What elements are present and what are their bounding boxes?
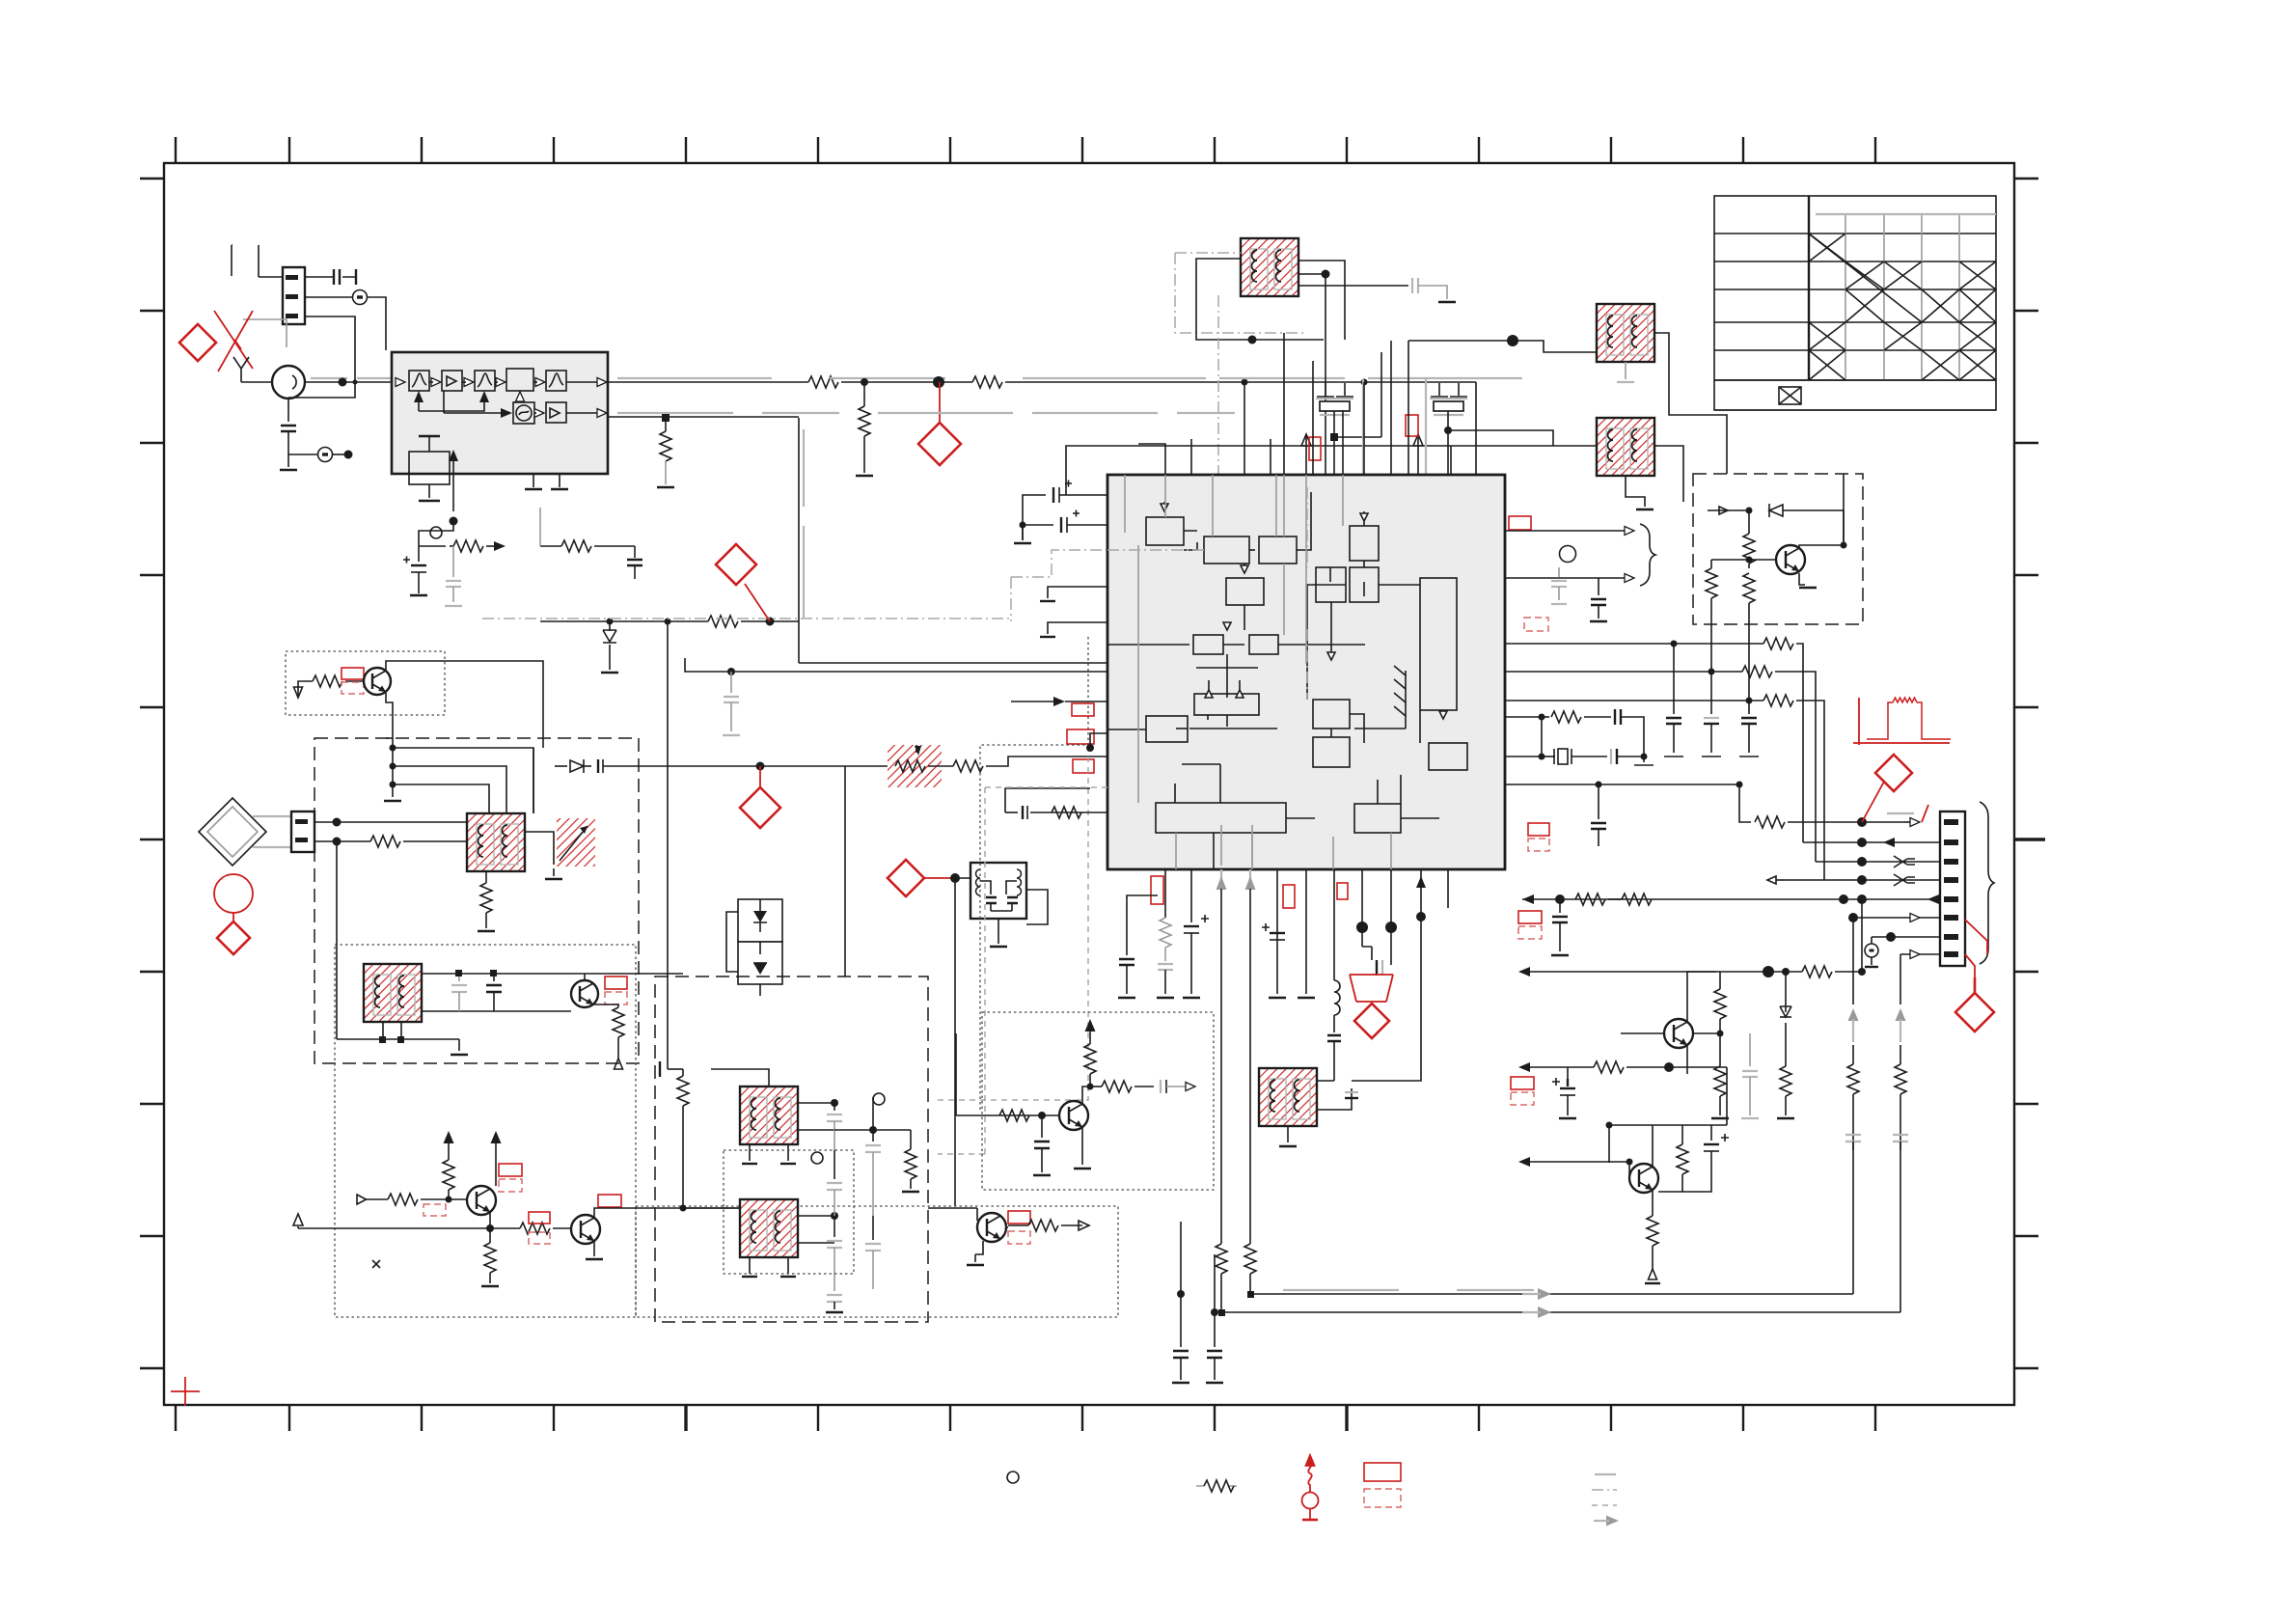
red label small boxes: [1309, 437, 1321, 460]
transformer T4: [467, 813, 525, 871]
resistor rows to connector: [1505, 643, 1763, 645]
pin3 wire: [1816, 861, 1940, 863]
red pin-label boxes: [1151, 876, 1163, 904]
wire mesh above IC: vertical drops from y=396 line and caps: [1138, 439, 1191, 475]
pin6 wire: [1853, 917, 1940, 919]
dashed group box B: [314, 738, 639, 1063]
transistor Q10: [1776, 545, 1805, 574]
Q1 collector resistor down: [489, 1228, 491, 1243]
pin drops with caps/resistors to ground: [1127, 895, 1158, 908]
part-number label box (red): [1008, 1211, 1030, 1224]
dashed gray long line into IC: [985, 787, 1107, 1154]
thick buses: [1189, 728, 1277, 729]
left zener + gnd: [609, 621, 611, 631]
red diamond upper w/ line to pin1 junction: [1875, 755, 1912, 791]
Q11: [1664, 1019, 1693, 1048]
resistor network right of Q11: [1719, 972, 1721, 989]
filter block 1: [409, 371, 429, 391]
transformer T3 (hatched): [1597, 418, 1654, 476]
border frame: [164, 163, 2014, 1405]
junction dots under IC right: [1420, 869, 1422, 917]
resistor: [1739, 784, 1751, 822]
part-number label box (red): [1528, 823, 1549, 836]
gray dotted shield boundary: [980, 637, 1088, 1112]
alt part-number label box (red dashed): [1528, 839, 1549, 851]
gray internal bus lines: [1125, 475, 1391, 869]
wire: [231, 244, 232, 246]
legend resistor: [1196, 1480, 1237, 1492]
gray dash-dot bus: [482, 550, 1107, 621]
small open-arrow pin marks on blocks: [1161, 504, 1447, 719]
circled test point: [305, 296, 352, 298]
resistor+cap into IC y842: [938, 1153, 985, 1155]
supply arrows + Q1: [444, 1131, 454, 1143]
filter block 3: [546, 371, 566, 391]
hatched trim patch P1: [557, 818, 595, 867]
transistor: [1059, 1101, 1088, 1130]
emitter to long rail: [489, 1212, 491, 1228]
pin 1 row: [1505, 784, 1739, 785]
resistor below T4: [485, 871, 487, 883]
part-number label box (red): [499, 1164, 522, 1176]
part-number label box (red): [1337, 883, 1348, 899]
alt part-number label box (red dashed): [529, 1232, 550, 1244]
alt part-number label box (red dashed): [1524, 618, 1548, 631]
T1 wiring loop: [1196, 259, 1324, 340]
part-number label box (red): [605, 977, 627, 989]
resistor: [313, 675, 342, 687]
T6: [740, 1087, 798, 1144]
alt part-number label box (red dashed): [424, 1204, 446, 1216]
bottom pins with grounds: [533, 474, 560, 487]
dotted box D3 with transistor Q9: [982, 1012, 1214, 1190]
inner dotted box: [724, 1150, 854, 1274]
alt part-number label box (red dashed): [1008, 1231, 1030, 1244]
capacitor C (J1 pin1 to gnd): [305, 276, 356, 278]
resistor: [1030, 811, 1107, 813]
electrolytic caps left of IC top: [1023, 495, 1107, 540]
wire y794 from left w/ diode: [555, 765, 567, 767]
part-number label box (red): [1509, 516, 1531, 530]
line down from T1 loop to IC: [1325, 340, 1326, 475]
emitter resistor network of Q12: [1681, 1125, 1683, 1144]
ceramic filter block: [924, 877, 951, 879]
red routing from pins: [1965, 920, 1987, 977]
left-arrow feed lines: [1522, 971, 1786, 973]
transformer T1 (hatched): [1241, 238, 1298, 296]
amp block 2: [546, 402, 566, 423]
dashed box D2 with twin transformers: [655, 977, 928, 1322]
filter block 2: [475, 371, 495, 391]
junction: [339, 378, 347, 387]
wire stub top-left of J1: [232, 245, 232, 276]
double diamond input: [199, 798, 266, 866]
resistor: [345, 840, 370, 842]
T2 right wire toward dashed box: [1654, 333, 1727, 474]
part-number label box (red): [342, 668, 364, 679]
transformer T2 (hatched): [1597, 304, 1654, 362]
off-page reference diamond (red): [217, 922, 250, 954]
osc circle block: [513, 402, 534, 424]
varactor/trimmer V1: [1301, 352, 1381, 521]
part-number label box (red): [1283, 885, 1295, 908]
second tuner output y=432: [608, 416, 799, 418]
resistor: [1505, 671, 1742, 673]
legend gray line styles: [1595, 1473, 1616, 1475]
diode stack (protection): [726, 899, 782, 996]
circled test point 2: [288, 454, 318, 455]
AGC line y=638 with resistor: [540, 620, 708, 622]
resistor: [895, 760, 925, 772]
wire y696 to IC: [685, 658, 1107, 672]
part-number label box (red): [598, 1195, 621, 1207]
caps+grounds under the junctions: [1180, 1222, 1182, 1347]
resistor: [1594, 1061, 1624, 1073]
main IF line y=396: [608, 381, 808, 383]
part-number label box (red): [1072, 703, 1094, 716]
transistor Q7: [571, 980, 598, 1007]
resistor: [520, 1223, 550, 1234]
part-number label box (red): [1511, 1077, 1534, 1089]
cut symbol + diamond at 1412/1442: [1362, 869, 1391, 927]
resistor to ground below junction: [863, 382, 865, 406]
red antenna cross: [214, 311, 253, 371]
brace outputs: [1505, 530, 1628, 532]
small circles o: [873, 1093, 885, 1105]
gray dash-dot shield around T1: [1175, 253, 1304, 333]
xtal sub-box bottom left: [409, 452, 450, 484]
shield boundary (dotted): [636, 1206, 1118, 1317]
resistor: [1505, 700, 1763, 701]
node ladder: [392, 738, 394, 797]
transistor Q2: [571, 1215, 600, 1244]
red diamond marker: [179, 324, 216, 361]
transformer T8 with cap loop: [1259, 1068, 1317, 1126]
electrolytic cap + ground: [418, 546, 420, 562]
Q12: [1629, 1164, 1658, 1193]
legend red test-point symbol: [1302, 1455, 1319, 1520]
curly brace right: [1980, 802, 1994, 964]
off-page reference diamond (red): [716, 544, 756, 585]
antenna connector J1: [283, 267, 305, 324]
antenna Y symbol: [233, 357, 249, 382]
T7: [740, 1199, 798, 1257]
pin7 wire: [1872, 936, 1940, 938]
alt part-number label box (red dashed): [1511, 1092, 1534, 1105]
plain drops to gnd: [1276, 869, 1278, 994]
crystal oscillator: [1505, 716, 1542, 718]
resistor: [1082, 1087, 1090, 1104]
transistor Q1: [467, 1186, 496, 1215]
x marker: [372, 1260, 380, 1268]
pin5 wire (long): [1522, 898, 1940, 900]
RC stub right of tuner bottom: [540, 545, 561, 547]
up arrow into box: [452, 461, 454, 511]
capacitor columns: [831, 1099, 838, 1107]
caps to ground on the rows: [1673, 644, 1675, 714]
resistor to arrow (AGC adj): [450, 545, 453, 547]
transistor: [364, 668, 391, 695]
part-number label box (red): [1073, 759, 1094, 773]
collector wire to the right and down: [386, 661, 543, 813]
main line continues right to transformer T2: [1344, 339, 1346, 341]
legend red dashed box: [1364, 1489, 1401, 1507]
part-number label box (red): [1406, 415, 1418, 436]
cap below tuner circle: [287, 399, 289, 422]
tuner input circle: [272, 366, 305, 399]
ground: [287, 454, 289, 467]
legend circle: [1007, 1472, 1019, 1483]
red diamond under y794: [759, 766, 761, 787]
hook stubs left of IC: [1048, 587, 1107, 598]
coil drop at 1383: [1333, 869, 1335, 980]
dashed box with transistor Q10: [1693, 474, 1863, 624]
transistor Q8 + output: [977, 1213, 1006, 1242]
input to Q1: [366, 1198, 388, 1200]
resistor: [388, 1194, 418, 1205]
off-page reference diamond (red): [888, 860, 924, 896]
verticals down from pins 6/8: [1852, 918, 1854, 1004]
alt part-number label box (red dashed): [1518, 926, 1542, 939]
T1 to cap to gnd: [1298, 285, 1408, 287]
zener + resistor branch: [1785, 972, 1787, 1012]
electrolytic on 1324: [1262, 923, 1285, 940]
wire y727 with arrow into IC: [1011, 701, 1059, 702]
red waveform: [1853, 698, 1951, 745]
emitter down into dashed box: [386, 693, 393, 738]
mixer plain block: [506, 369, 533, 391]
pin2 wire: [1803, 841, 1940, 843]
off-page reference diamond (red): [1354, 1004, 1389, 1038]
alt part-number label box (red dashed): [499, 1179, 522, 1192]
transformer T5: [364, 964, 422, 1022]
part-number label box (red): [1518, 911, 1542, 923]
T5 bottom pins: [383, 1022, 401, 1039]
wire circle to tuner box: [305, 381, 392, 383]
part-number label box (red): [529, 1212, 550, 1224]
resistor: [999, 1110, 1029, 1121]
gray arrow pins down to long wires: [1220, 869, 1222, 889]
resistor right: [910, 1130, 912, 1149]
connector block 2: [291, 811, 314, 852]
alt part-number label box (red dashed): [605, 992, 627, 1004]
gray cap branch: [452, 546, 454, 577]
off-page reference diamond (red): [740, 787, 780, 828]
part-number label box (red): [1067, 729, 1094, 744]
internal connections: [1107, 492, 1439, 869]
J1 pin3 wire down to circle bottom: [288, 316, 355, 398]
long vertical x876: [844, 766, 846, 977]
big dotted box D1: [335, 945, 636, 1317]
amp block: [442, 371, 462, 391]
red circle + diamond marker: [214, 874, 253, 913]
Q12 emitter resistor down: [1652, 1190, 1654, 1216]
T5 wiring: [423, 974, 683, 1011]
off-page reference diamond (red): [918, 423, 961, 465]
gray L wire: [243, 319, 287, 347]
red diamond to AGC junction: [745, 584, 770, 621]
feed line y1204: [1522, 1161, 1594, 1163]
varactor/trimmer V2: [1413, 379, 1553, 521]
alt part-number label box (red dashed): [342, 682, 364, 694]
wire antenna to circle: [241, 381, 272, 383]
legend gray arrow: [1594, 1516, 1619, 1527]
feed line y1106: [1522, 1066, 1594, 1068]
resistor: [1786, 971, 1802, 973]
red registration cross: [171, 1377, 200, 1406]
wires to T4: [314, 821, 467, 823]
resistor: [1008, 1224, 1028, 1226]
pin8 wire: [1900, 953, 1940, 955]
AGC supply node below tuner: [450, 517, 458, 526]
long bottom wires to right: [1250, 1293, 1853, 1295]
internal white function blocks: [1146, 517, 1467, 833]
resistor: [1575, 894, 1605, 905]
resistor: [1542, 716, 1549, 718]
feedback arrows inside: [418, 394, 420, 411]
drop to AGC line: [799, 418, 1107, 663]
red diamond hanging: [939, 382, 941, 423]
legend red solid box: [1364, 1463, 1401, 1481]
pin4 wire: [1784, 879, 1940, 881]
dotted box A with transistor Q3: [286, 651, 445, 715]
red diamond lower: [1955, 993, 1994, 1032]
input arrow: [396, 378, 405, 387]
hatched trim patch P2 with resistor: [888, 745, 942, 787]
